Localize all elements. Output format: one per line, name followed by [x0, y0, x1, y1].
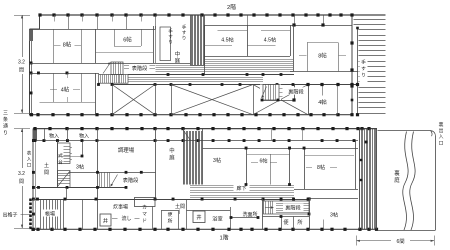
svg-text:4.5帖: 4.5帖 — [221, 36, 233, 44]
svg-text:裏階段: 裏階段 — [288, 87, 304, 95]
svg-text:三: 三 — [3, 111, 8, 117]
svg-text:6帖: 6帖 — [259, 157, 267, 165]
svg-text:通: 通 — [3, 123, 8, 130]
svg-text:庭: 庭 — [169, 154, 175, 162]
svg-text:6帖: 6帖 — [123, 36, 132, 44]
svg-text:マ: マ — [142, 211, 147, 217]
svg-text:炊事場: 炊事場 — [113, 204, 128, 211]
svg-text:表階段: 表階段 — [123, 176, 139, 184]
svg-text:裏階段: 裏階段 — [285, 204, 301, 212]
svg-text:3帖: 3帖 — [330, 211, 338, 219]
svg-text:物入: 物入 — [79, 132, 89, 139]
svg-text:り: り — [3, 130, 8, 136]
svg-text:6間: 6間 — [396, 238, 404, 245]
svg-text:所: 所 — [297, 218, 302, 226]
svg-text:土: 土 — [44, 162, 49, 169]
svg-text:手: 手 — [361, 59, 366, 66]
svg-text:中: 中 — [169, 147, 174, 155]
svg-text:1階: 1階 — [219, 233, 228, 241]
svg-text:洗面所: 洗面所 — [242, 211, 257, 218]
svg-text:調理場: 調理場 — [118, 146, 135, 154]
svg-text:3帖: 3帖 — [213, 156, 221, 164]
svg-text:3.2: 3.2 — [18, 60, 25, 66]
svg-text:2階: 2階 — [227, 3, 236, 11]
svg-text:井: 井 — [196, 213, 201, 221]
svg-text:便: 便 — [168, 211, 173, 218]
svg-text:出: 出 — [439, 127, 444, 134]
svg-text:3帖: 3帖 — [76, 163, 84, 171]
svg-text:表階段: 表階段 — [132, 64, 148, 72]
svg-text:間: 間 — [44, 170, 49, 176]
svg-text:3.2: 3.2 — [18, 171, 25, 177]
svg-text:便: 便 — [283, 218, 289, 226]
svg-text:土間: 土間 — [175, 203, 185, 210]
svg-text:す: す — [361, 66, 366, 72]
svg-text:入: 入 — [439, 134, 444, 140]
svg-text:入: 入 — [27, 156, 32, 161]
svg-text:4.5帖: 4.5帖 — [264, 36, 276, 44]
svg-text:浴室: 浴室 — [212, 215, 222, 223]
svg-text:条: 条 — [3, 116, 8, 123]
svg-text:4帖: 4帖 — [61, 86, 70, 94]
svg-text:8帖: 8帖 — [317, 163, 325, 171]
svg-text:出格子: 出格子 — [2, 212, 17, 219]
svg-text:ド: ド — [142, 219, 147, 224]
svg-text:口: 口 — [439, 140, 444, 146]
svg-text:間: 間 — [19, 179, 24, 185]
svg-text:台: 台 — [58, 158, 63, 165]
svg-text:8帖: 8帖 — [63, 41, 72, 49]
svg-text:式: 式 — [58, 152, 63, 158]
svg-text:帳場: 帳場 — [45, 211, 55, 218]
svg-text:カ: カ — [142, 205, 147, 211]
svg-text:中: 中 — [175, 50, 180, 58]
svg-text:井: 井 — [103, 217, 108, 225]
svg-text:裏: 裏 — [394, 169, 400, 177]
svg-text:庭: 庭 — [394, 176, 400, 184]
svg-text:廊下: 廊下 — [236, 185, 246, 192]
svg-text:物入: 物入 — [49, 132, 59, 139]
svg-text:庭: 庭 — [175, 57, 181, 65]
svg-text:り: り — [361, 73, 366, 79]
svg-text:裏: 裏 — [439, 121, 444, 128]
svg-text:4帖: 4帖 — [318, 98, 327, 106]
svg-text:流し: 流し — [121, 215, 131, 222]
svg-text:間: 間 — [19, 68, 24, 74]
svg-text:8帖: 8帖 — [318, 51, 327, 59]
svg-text:所: 所 — [168, 218, 173, 225]
